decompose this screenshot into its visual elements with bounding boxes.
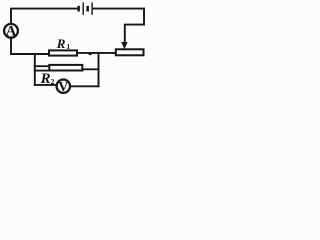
wire right vertical: [143, 9, 145, 25]
wire top rail right of battery: [93, 8, 144, 10]
svg-text:1: 1: [66, 42, 70, 51]
resistor R2: [49, 65, 82, 71]
svg-text:A: A: [6, 24, 17, 40]
voltmeter V: [57, 80, 70, 95]
wire R2 right lead: [83, 68, 99, 70]
wire R1 right lead to rheostat: [77, 52, 116, 54]
svg-text:R: R: [56, 36, 66, 51]
wire ammeter to bottom-left corner: [11, 38, 49, 54]
wire voltmeter left lead: [35, 84, 57, 86]
svg-text:2: 2: [51, 77, 55, 86]
wire right bus vertical: [98, 53, 100, 86]
svg-text:V: V: [58, 80, 68, 95]
wire left bus vertical: [34, 54, 36, 85]
svg-text:R: R: [40, 71, 51, 87]
rheostat R (slide): [116, 49, 144, 55]
wire top-left vertical (battery to ammeter): [11, 9, 77, 24]
wire jog to wiper: [125, 25, 144, 43]
wire R2 lower-left stub: [35, 70, 51, 72]
rheostat wiper arrow: [121, 42, 127, 49]
battery B1: [77, 2, 92, 15]
wire R2 left lead: [35, 65, 50, 67]
junction blob on R1 right wire: [89, 53, 92, 55]
ammeter A: [4, 24, 18, 40]
wire voltmeter right lead: [70, 85, 99, 87]
resistor R1: [49, 50, 77, 55]
